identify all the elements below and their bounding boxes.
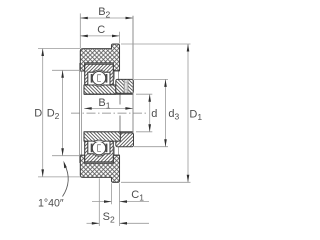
raceway groove lower (band cut)	[91, 140, 107, 156]
dim line B2	[80, 17, 133, 19]
d3 ext top	[134, 78, 168, 80]
C arrows	[80, 35, 88, 38]
D ext top	[38, 48, 80, 50]
locking collar lower	[116, 133, 134, 147]
D1 ext top	[121, 43, 191, 45]
ball lower	[92, 141, 105, 154]
d arrows	[148, 94, 151, 102]
centerline	[71, 112, 147, 114]
ext line C right (flange face)	[119, 32, 121, 44]
ball upper	[92, 71, 105, 84]
d3 ext bottom	[134, 146, 168, 148]
raceway groove upper	[91, 70, 107, 86]
bore line upper	[84, 93, 134, 95]
S2 dim line left tail	[87, 222, 100, 224]
d3 dim vertical	[165, 79, 167, 146]
svg-text:D: D	[34, 107, 42, 119]
svg-text:d: d	[151, 108, 157, 120]
outer ring upper (hatched)	[85, 64, 114, 84]
seal lower right	[106, 144, 108, 153]
leader arrowhead	[64, 161, 67, 168]
ball cage lower	[98, 145, 101, 152]
arrows	[41, 17, 189, 225]
dimension and extension lines	[79, 13, 81, 48]
raceway groove lower	[91, 140, 107, 156]
flange bore edge lower	[113, 154, 119, 156]
inner ring lower band (hatched)	[84, 132, 120, 141]
D dim vertical	[42, 49, 44, 177]
inner ring upper band (hatched)	[84, 85, 116, 94]
D2 arrows	[61, 70, 64, 78]
d ext bottom	[136, 131, 152, 133]
locking collar upper	[116, 79, 134, 93]
C1 dim line left tail	[92, 201, 112, 203]
d3 arrows	[164, 79, 167, 87]
D1 ext bottom	[121, 181, 191, 183]
C1 dim line right tail	[120, 201, 150, 203]
d dim vertical	[149, 94, 151, 132]
flange front face projection line through bore	[119, 93, 121, 104]
C1 ext left	[111, 183, 113, 204]
dim line C	[80, 35, 119, 37]
flange bore projection lines	[114, 71, 118, 155]
C1 arrows	[104, 200, 112, 203]
dim line B1	[84, 107, 133, 109]
flange bore edge upper	[113, 70, 119, 72]
ext line B2/C left	[79, 13, 81, 48]
D2 ext top	[52, 69, 80, 71]
svg-text:1°40″: 1°40″	[38, 197, 64, 209]
seal lower left	[91, 144, 93, 153]
seal upper left	[91, 74, 93, 83]
S2 ext left (bearing center plane)	[98, 178, 100, 226]
D ext bottom	[38, 176, 80, 178]
misalignment leader arc	[63, 165, 69, 197]
outer ring lower (hatched)	[85, 141, 114, 162]
B1 arrows	[84, 107, 92, 110]
S2 dim line right tail	[120, 222, 150, 224]
seal upper right	[106, 74, 108, 83]
C1/S2 ext right	[119, 183, 121, 226]
housing lower section (crosshatched)	[80, 155, 119, 182]
d ext top	[136, 93, 152, 95]
D2 ext bottom	[52, 155, 80, 157]
ball cage upper	[98, 75, 101, 82]
S2 arrows	[92, 222, 100, 225]
D2 dim vertical	[62, 70, 64, 155]
D1 dim vertical	[187, 44, 189, 182]
bore line lower right segment	[120, 131, 133, 133]
B2 arrows	[80, 17, 88, 20]
D arrows	[41, 49, 44, 57]
housing left face projection lines	[80, 63, 82, 163]
housing upper section (crosshatched)	[80, 44, 119, 71]
D1 arrows	[187, 44, 190, 52]
svg-text:C: C	[97, 24, 105, 36]
